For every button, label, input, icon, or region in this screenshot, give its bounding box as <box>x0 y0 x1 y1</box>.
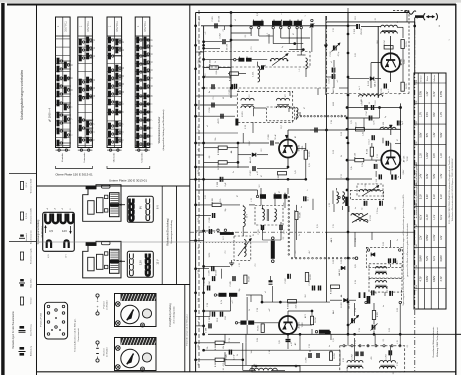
svg-text:+: + <box>96 299 98 303</box>
svg-text:C 216: C 216 <box>209 106 211 112</box>
svg-text:E 20: E 20 <box>245 125 247 129</box>
terminal circles on output box <box>343 345 345 347</box>
polarity pin diagram <box>96 341 99 344</box>
DIN socket P202/P203 outline <box>45 302 68 339</box>
svg-text:12V: 12V <box>440 235 443 240</box>
svg-text:F101=TRA15/TR54 TR34=TRA7U2 Dr: F101=TRA15/TR54 TR34=TRA7U2 Drucktasten … <box>448 155 451 224</box>
wafer contact <box>144 93 147 100</box>
svg-text:1,7V: 1,7V <box>440 112 443 117</box>
legend trimmer symbol <box>20 297 23 305</box>
wafer contact <box>136 133 139 140</box>
electrolytic pair C213 C214 <box>332 68 334 73</box>
wire y266.4 row <box>204 265 230 267</box>
svg-text:L 25: L 25 <box>397 340 399 343</box>
wire x247 y334 link <box>246 325 248 334</box>
wire y129.3 <box>347 128 401 130</box>
svg-text:C 64: C 64 <box>331 120 333 124</box>
wafer contact <box>108 91 111 98</box>
svg-text:C 107: C 107 <box>362 99 364 105</box>
capacitor C288 <box>208 323 210 328</box>
svg-text:R 246: R 246 <box>215 344 217 350</box>
svg-text:u2: u2 <box>235 19 237 21</box>
svg-text:C 206: C 206 <box>268 133 270 139</box>
module arrow <box>120 204 126 206</box>
svg-text:C 11: C 11 <box>341 174 343 178</box>
module connector striped block <box>110 249 120 273</box>
svg-text:1,64V: 1,64V <box>426 152 429 159</box>
capacitor C247 <box>371 290 373 295</box>
svg-text:AC 151: AC 151 <box>298 321 301 329</box>
comb outline box <box>127 196 153 222</box>
wafer contact <box>115 121 118 128</box>
wafer contact <box>57 83 60 90</box>
svg-text:14: 14 <box>72 64 74 66</box>
dashed box output IF block <box>340 346 405 372</box>
shield box L241 <box>252 366 300 372</box>
diode D201 AA113 <box>252 153 256 157</box>
svg-text:R 226: R 226 <box>300 211 302 217</box>
svg-text:R 24: R 24 <box>198 298 200 302</box>
wafer contact <box>136 85 139 92</box>
wire y365 mid <box>225 364 340 366</box>
motor side wheel <box>142 309 151 318</box>
svg-text:C 236: C 236 <box>309 279 311 285</box>
capacitor C234 pair <box>388 258 390 263</box>
wafer contact <box>57 100 60 107</box>
svg-text:1,4V: 1,4V <box>440 173 443 178</box>
resistor R241 <box>261 324 264 333</box>
svg-text:16: 16 <box>151 45 153 47</box>
crossed air coils F152 <box>351 214 363 216</box>
svg-text:E 201: E 201 <box>242 111 244 117</box>
svg-text:E 2: E 2 <box>249 95 251 98</box>
right margin rule <box>456 333 461 335</box>
svg-text:11,4V: 11,4V <box>426 214 429 220</box>
diode D202 <box>341 266 345 270</box>
svg-text:Untere Platte 150 E 3013-01: Untere Platte 150 E 3013-01 <box>109 179 147 183</box>
svg-text:Rückansicht (Beschaltung): Rückansicht (Beschaltung) <box>167 218 170 246</box>
bracket untere platte <box>107 166 150 169</box>
svg-text:T 201: T 201 <box>302 145 304 151</box>
svg-text:ke: ke <box>198 83 200 85</box>
resistor R229 <box>331 285 340 288</box>
svg-text:R 232: R 232 <box>288 303 290 309</box>
svg-text:Trimmer: Trimmer <box>30 297 33 304</box>
svg-text:2n: 2n <box>198 107 200 109</box>
electrolytic C208 <box>220 177 222 182</box>
svg-text:1k: 1k <box>215 61 217 63</box>
svg-text:(ein 4P Ger.): (ein 4P Ger.) <box>41 226 44 238</box>
svg-text:Oberseite: Oberseite <box>112 152 115 162</box>
wire y268.7 stub <box>196 268 209 270</box>
svg-text:C 249: C 249 <box>348 323 350 329</box>
svg-text:C 21: C 21 <box>198 126 200 130</box>
svg-text:15: 15 <box>151 53 153 55</box>
svg-text:Bemerkungen für alle Bauelemen: Bemerkungen für alle Bauelemente <box>12 311 15 349</box>
svg-text:1,7V: 1,7V <box>420 112 423 117</box>
svg-text:15: 15 <box>94 55 96 57</box>
svg-text:3,3k: 3,3k <box>362 163 364 167</box>
svg-text:ke: ke <box>301 206 303 208</box>
motor screw top <box>116 346 121 351</box>
svg-text:50n: 50n <box>215 138 217 141</box>
capacitor C223 <box>211 266 213 271</box>
module inner plate <box>97 254 104 269</box>
wire T202 base <box>371 62 381 64</box>
motor screw bottom <box>116 365 121 370</box>
svg-text:17: 17 <box>94 39 96 41</box>
svg-text:50 nF: 50 nF <box>275 134 277 140</box>
svg-text:F 15: F 15 <box>333 224 335 228</box>
transistor T203 <box>279 316 297 334</box>
wire link bars to coilbox <box>252 59 268 61</box>
wire x340 bottom link <box>339 350 341 365</box>
variable inductor L222 <box>244 240 246 257</box>
svg-text:R 205: R 205 <box>309 150 311 156</box>
sheet border left black bar <box>1 3 4 375</box>
svg-text:7: 7 <box>94 123 96 124</box>
wafer contact <box>115 101 118 108</box>
contact bar pair y322 <box>235 322 237 324</box>
module top cap <box>86 243 96 246</box>
svg-text:3 5 7 9 11: 3 5 7 9 11 <box>116 21 119 32</box>
svg-text:C 221: C 221 <box>258 228 260 234</box>
svg-text:C 28: C 28 <box>257 308 259 312</box>
wafer contact <box>108 67 111 74</box>
wire IF link <box>254 107 267 109</box>
wafer contact <box>136 101 139 108</box>
wafer contact <box>144 109 147 116</box>
wafer contact <box>57 112 60 119</box>
svg-text:25/100: 25/100 <box>361 28 363 35</box>
wafer contact <box>144 67 147 74</box>
electrolytic C248 <box>389 291 391 296</box>
svg-text:0,55V: 0,55V <box>426 234 429 241</box>
wire y179 <box>190 178 306 180</box>
svg-text:AC 1: AC 1 <box>304 314 307 318</box>
capacitor C204b <box>234 84 236 89</box>
wire dash-dot chassis line left <box>198 10 200 370</box>
svg-text:30p: 30p <box>239 289 241 292</box>
svg-text:2n: 2n <box>233 171 235 173</box>
legend resistor symbol <box>20 182 23 190</box>
svg-text:AA 113: AA 113 <box>332 87 335 93</box>
module top tab <box>102 185 111 188</box>
svg-text:D 203: D 203 <box>341 301 343 307</box>
wafer contact <box>64 62 67 69</box>
svg-text:C 212: C 212 <box>354 28 356 34</box>
svg-text:C 227: C 227 <box>285 277 287 283</box>
voltage selector comb <box>130 199 134 205</box>
output transformer coils A <box>347 361 363 363</box>
inductor L241 bottom <box>250 368 278 370</box>
svg-text:7: 7 <box>151 119 153 120</box>
wire y116 row <box>196 115 235 117</box>
panel divider vertical lower <box>184 284 186 372</box>
ground symbol <box>231 260 233 263</box>
variable capacitor C210 <box>333 46 335 51</box>
svg-text:C 208: C 208 <box>217 181 219 187</box>
wafer contact <box>108 131 111 138</box>
svg-text:E 25: E 25 <box>343 358 345 362</box>
sheet border bottom <box>37 371 456 373</box>
transformer L230 with core <box>337 192 339 203</box>
svg-text:12V: 12V <box>62 229 67 233</box>
module small pins <box>105 252 108 255</box>
svg-text:Spannungsumschaltung: Spannungsumschaltung <box>37 219 40 244</box>
wire top bus <box>196 12 409 14</box>
svg-text:7: 7 <box>72 118 74 119</box>
svg-text:30p: 30p <box>225 209 227 212</box>
svg-text:T 107: T 107 <box>416 224 418 229</box>
module inner lever <box>88 257 94 271</box>
svg-text:Unterseite: Unterseite <box>141 152 144 163</box>
svg-text:u1: u1 <box>207 125 209 127</box>
svg-text:40/160: 40/160 <box>227 43 229 50</box>
motor unit hatched bar <box>121 338 157 346</box>
wire y77 row <box>204 76 231 78</box>
svg-text:L 3: L 3 <box>299 69 301 71</box>
label 4,5V with arrow <box>45 226 47 233</box>
svg-text:1,4V: 1,4V <box>420 173 423 178</box>
svg-text:Collector: Collector <box>433 74 436 82</box>
wafer contact <box>144 43 147 50</box>
svg-text:4,7V: 4,7V <box>420 276 423 281</box>
svg-text:R 214: R 214 <box>384 39 386 45</box>
dashed UKW box right <box>408 60 410 94</box>
wafer contact <box>136 141 139 148</box>
contact forks bottom <box>359 292 361 298</box>
wire bottom verticals <box>354 346 356 360</box>
wire y48 stub <box>204 47 220 49</box>
legend electrolytic symbol <box>20 279 24 281</box>
svg-text:1k: 1k <box>249 309 251 311</box>
wafer contact <box>108 45 111 52</box>
svg-text:0,1: 0,1 <box>383 339 385 342</box>
svg-text:T 100: T 100 <box>416 80 418 85</box>
svg-text:T 108: T 108 <box>416 244 418 249</box>
module inner plate <box>97 198 104 213</box>
wafer contact <box>79 39 82 46</box>
resistor R206 <box>278 172 287 175</box>
terminal circles L105 <box>338 196 340 198</box>
inductor L207 <box>296 108 298 119</box>
electrolytic C227 <box>287 274 289 279</box>
electrolytic C250 with arrow <box>372 325 374 330</box>
svg-text:5,8V: 5,8V <box>420 132 423 137</box>
capacitor C209 <box>314 128 316 133</box>
wire x272 bottom link <box>272 286 274 302</box>
svg-text:u1: u1 <box>265 291 267 293</box>
wire y59 to contact <box>204 58 234 60</box>
svg-text:9,4V: 9,4V <box>426 112 429 117</box>
svg-text:C 248: C 248 <box>387 285 389 291</box>
motor screw top <box>116 302 121 307</box>
svg-text:u3: u3 <box>198 149 200 151</box>
wafer contact <box>136 77 139 84</box>
svg-text:C 11: C 11 <box>377 154 379 158</box>
svg-text:40/70: 40/70 <box>218 118 220 124</box>
svg-text:R 203: R 203 <box>218 163 220 169</box>
svg-text:L 11: L 11 <box>383 92 385 95</box>
svg-text:11: 11 <box>151 85 153 87</box>
wafer contact <box>57 120 60 127</box>
svg-text:R 104: R 104 <box>367 148 369 154</box>
sheet border top <box>7 4 456 6</box>
battery cell symbols <box>45 214 50 224</box>
junction dots on buses <box>194 24 197 27</box>
wire y302 row <box>265 301 330 303</box>
wafer contact <box>108 139 111 146</box>
wafer contact <box>108 53 111 60</box>
resistor R215 <box>401 82 404 91</box>
svg-text:Unterseite: Unterseite <box>83 152 86 163</box>
svg-text:0,25: 0,25 <box>279 340 281 344</box>
wafer contact bar pair mid <box>238 58 244 62</box>
wire bottom mid verticals <box>309 350 311 352</box>
wafer contact <box>86 93 89 100</box>
dashed IF box E201 <box>237 92 292 123</box>
motor unit hatched bar <box>121 294 157 302</box>
svg-text:67V: 67V <box>433 112 436 117</box>
wafer contact <box>115 81 118 88</box>
legend capacitor symbol <box>20 235 24 237</box>
svg-text:Elko 10/12: Elko 10/12 <box>31 279 33 288</box>
wafer contact <box>57 140 60 147</box>
svg-text:C 25: C 25 <box>309 344 311 348</box>
battery jumper symbols <box>47 240 51 248</box>
svg-text:R 2: R 2 <box>295 251 297 254</box>
svg-text:6: 6 <box>151 127 153 128</box>
IF transformer L205 coils <box>241 98 254 100</box>
svg-text:C 223: C 223 <box>209 269 211 275</box>
svg-text:0,2: 0,2 <box>283 237 285 240</box>
panel divider vertical <box>176 186 178 284</box>
svg-text:12: 12 <box>123 83 125 85</box>
wire T202 collector <box>390 36 392 53</box>
svg-text:UKW: UKW <box>333 102 335 106</box>
svg-text:Widerstand 0,5W: Widerstand 0,5W <box>30 179 33 194</box>
capacitor C252 <box>355 352 357 357</box>
module connector striped block <box>110 193 120 217</box>
motor unit frame <box>115 294 157 327</box>
wire y350 long <box>204 349 300 351</box>
wire y334 long <box>208 333 461 335</box>
capacitor C116 <box>378 174 380 179</box>
svg-text:17: 17 <box>151 39 153 41</box>
svg-text:0,2V: 0,2V <box>426 194 429 199</box>
transistor T102 <box>381 151 400 170</box>
wafer contact <box>115 137 118 144</box>
capacitor C217 <box>220 114 222 119</box>
svg-text:Wellenbereichsschalter: Wellenbereichsschalter <box>157 116 161 143</box>
wire vertical x326 <box>326 16 328 94</box>
wire mid-right links <box>347 232 349 240</box>
svg-text:4,7k: 4,7k <box>220 199 222 203</box>
capacitor C204 <box>211 84 213 89</box>
wire x269 link T201 <box>268 140 270 143</box>
svg-text:6k8: 6k8 <box>377 41 379 44</box>
svg-text:16: 16 <box>94 47 96 49</box>
svg-text:455 kHz: 455 kHz <box>347 365 349 372</box>
svg-text:5: 5 <box>151 135 153 136</box>
svg-text:R 2: R 2 <box>205 74 207 77</box>
svg-text:C 225: C 225 <box>230 280 232 286</box>
svg-text:Kontakte: Kontakte <box>61 152 64 161</box>
wire R205 down <box>305 159 307 179</box>
black core bar <box>235 119 238 126</box>
svg-text:AF 106: AF 106 <box>400 58 403 65</box>
svg-text:0,63V: 0,63V <box>426 275 429 282</box>
capacitor C220 <box>212 213 214 218</box>
switch dotted row y116 <box>300 115 302 117</box>
capacitor C224 pair <box>212 276 214 281</box>
svg-text:0,75V: 0,75V <box>440 90 443 97</box>
svg-text:5,8V: 5,8V <box>440 132 443 137</box>
capacitor C203 with arrow <box>261 65 263 69</box>
svg-text:F 152: F 152 <box>370 215 372 221</box>
svg-text:AA 11: AA 11 <box>330 238 333 243</box>
svg-text:● u ammeters 2/26 um 1g Stelle: ● u ammeters 2/26 um 1g Stellenregelerun… <box>415 163 418 218</box>
wire y316 stub <box>196 316 210 318</box>
panel divider horizontal lower <box>37 284 190 286</box>
svg-text:0,25 W: 0,25 W <box>26 213 28 219</box>
module inner lever <box>88 201 94 215</box>
electrolytic C115 <box>374 164 376 169</box>
wire vertical feed to table <box>414 22 416 73</box>
wafer contact <box>79 137 82 144</box>
svg-text:6,1V: 6,1V <box>440 214 443 219</box>
svg-text:Durchführung: Durchführung <box>30 324 33 335</box>
svg-text:C 2: C 2 <box>255 264 257 267</box>
svg-text:L 21: L 21 <box>375 18 377 21</box>
wire base feed T201 <box>196 142 269 144</box>
svg-text:R 234: R 234 <box>315 316 317 322</box>
capacitor C216 <box>211 103 213 108</box>
svg-text:6: 6 <box>94 131 96 132</box>
svg-text:0,1V: 0,1V <box>420 194 423 199</box>
wire r203 r204 links <box>204 147 218 149</box>
electrolytic C253 <box>388 350 390 355</box>
wafer contact <box>115 47 118 54</box>
variable inductor L202 <box>271 58 288 60</box>
capacitor C107 C110 pair <box>364 105 366 110</box>
svg-text:50/6: 50/6 <box>225 316 227 320</box>
svg-text:14n: 14n <box>251 351 253 354</box>
svg-text:3 5 7 9 11: 3 5 7 9 11 <box>87 21 90 32</box>
svg-text:R 221: R 221 <box>212 197 214 203</box>
wire y179 right <box>326 178 347 180</box>
wire x334 ecap link <box>333 73 335 75</box>
wire y130 left stub <box>326 129 347 131</box>
wafer contact <box>86 129 89 136</box>
svg-text:R 10: R 10 <box>341 132 343 136</box>
svg-text:C 288: C 288 <box>206 327 208 333</box>
wafer contact <box>144 51 147 58</box>
svg-text:BF 194: BF 194 <box>299 144 301 151</box>
motor bottom screw <box>141 367 145 371</box>
wire main left bus <box>195 13 197 372</box>
voltage table <box>414 73 446 309</box>
module top tab <box>102 242 111 245</box>
wafer contact <box>144 117 147 124</box>
svg-text:14: 14 <box>123 67 125 69</box>
svg-text:0,65V: 0,65V <box>249 140 251 145</box>
svg-text:R 2: R 2 <box>198 61 200 64</box>
diode D203 <box>344 298 348 302</box>
svg-text:13k: 13k <box>198 344 200 347</box>
wafer contact <box>115 65 118 72</box>
